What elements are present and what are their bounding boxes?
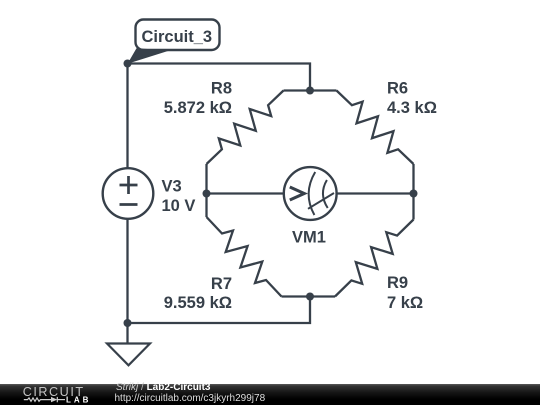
svg-text:5.872 kΩ: 5.872 kΩ [164,99,232,117]
resistor R8 [207,91,311,194]
voltmeter VM1 [284,167,337,220]
ground [107,344,150,366]
footer url line [115,394,266,404]
voltage source V3 [103,168,154,219]
svg-text:VM1: VM1 [292,228,326,246]
node A junction (top left) [124,60,132,68]
wire voltmeter left lead [207,192,285,194]
ground node junction [124,319,132,327]
resistor R7 [207,194,311,297]
net flag tail [128,48,170,64]
svg-text:LAB: LAB [66,395,91,404]
svg-text:R6: R6 [387,80,408,98]
svg-text:4.3 kΩ: 4.3 kΩ [387,99,437,117]
wire bottom rail: ground node to bottom bridge node [128,297,311,324]
footer title line [116,383,210,393]
resistor R6 [310,91,414,194]
wire top rail: node A to top bridge node [128,64,311,91]
bridge right node junction [410,190,418,198]
footer bar [0,384,540,405]
svg-text:7 kΩ: 7 kΩ [387,294,423,312]
wire V3 bottom lead down to ground net [126,219,128,324]
wire V3 top lead [126,64,128,169]
resistor R9 [310,194,414,297]
svg-text:R7: R7 [211,275,232,293]
net flag box Circuit_3 [136,20,220,51]
svg-text:V3: V3 [162,178,182,196]
svg-text:Circuit_3: Circuit_3 [142,28,213,46]
bridge left node junction [203,190,211,198]
bridge bottom node junction [306,293,314,301]
CircuitLab logo [0,384,110,405]
svg-text:9.559 kΩ: 9.559 kΩ [164,294,232,312]
svg-text:R9: R9 [387,274,408,292]
svg-text:10 V: 10 V [162,197,196,215]
bridge top node junction [306,87,314,95]
svg-text:R8: R8 [211,80,232,98]
wire voltmeter right lead [337,192,414,194]
wire ground stem [126,323,128,344]
